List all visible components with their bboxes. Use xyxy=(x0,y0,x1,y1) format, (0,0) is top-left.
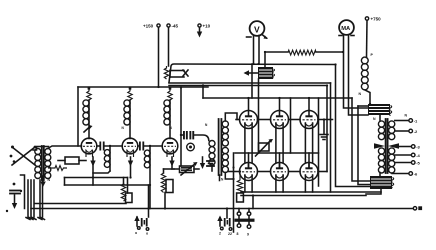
RF choke box lower (hatched) xyxy=(370,176,394,189)
battery group A xyxy=(134,185,149,236)
T2 bottom leads xyxy=(220,173,234,181)
wire e to box stub xyxy=(358,105,368,107)
series resistor R2 zigzag xyxy=(48,166,67,171)
svg-text:9: 9 xyxy=(247,233,249,237)
plate leads top row xyxy=(249,98,310,111)
T3 right winding upper rings xyxy=(389,121,395,140)
antenna series condenser / key contacts lower xyxy=(10,183,22,194)
svg-text:o: o xyxy=(146,232,148,236)
grid condenser box with arrow xyxy=(256,139,274,156)
wire key to transformer T1 xyxy=(33,147,37,150)
voltmeter V xyxy=(247,21,269,39)
phone jack J1 xyxy=(187,143,195,151)
plate rail over tube bank xyxy=(203,97,352,99)
grid return wire down xyxy=(233,153,235,232)
transformer T1 secondary winding (right rings) xyxy=(45,149,51,179)
grid choke L5 xyxy=(144,145,151,209)
plate choke L1 xyxy=(83,87,91,139)
transformer T1 primary winding (left rings) xyxy=(35,149,41,179)
milliammeter MA xyxy=(339,20,354,35)
wire T1 secondary top to tube V1 grid xyxy=(48,146,82,149)
terminal wire 5 xyxy=(395,161,421,166)
grid resistor R3 zigzag vertical xyxy=(237,172,244,203)
filament arrow below V3 xyxy=(169,157,174,169)
wire resistor left xyxy=(265,51,288,53)
tube V1 xyxy=(81,138,97,157)
T2 primary bottom lead xyxy=(211,165,213,171)
filament switch block xyxy=(235,209,255,237)
resistor R6 zigzag with box xyxy=(161,169,174,209)
mid bus between rows xyxy=(235,152,319,154)
T3 left winding lower rings xyxy=(378,148,384,173)
resistor R5 zigzag with box xyxy=(121,178,132,203)
power tube V5 xyxy=(271,111,289,129)
filament legs V6 xyxy=(305,123,312,163)
filament arrow below V2 xyxy=(128,157,133,178)
filament legs V8 xyxy=(276,175,283,192)
terminal dot bottom left xyxy=(6,210,8,212)
right side vertical wire e xyxy=(336,65,371,187)
tube V2 xyxy=(122,138,138,157)
wire V-meter branch down xyxy=(251,64,253,98)
svg-text:V: V xyxy=(254,24,260,34)
T3 top lead to choke box xyxy=(379,115,381,121)
svg-text:+150: +150 xyxy=(143,24,154,29)
coupling capacitor C3 (double) xyxy=(180,131,209,141)
terminal +10 with ground arrow xyxy=(197,24,211,38)
right side vertical wire a xyxy=(330,83,332,192)
bypass wire right of V4 xyxy=(258,79,260,153)
filament rail lower 1 xyxy=(241,191,381,193)
terminal +150 xyxy=(143,24,160,88)
key switch S1 (crossed blades with contact dots) xyxy=(10,146,37,166)
svg-text:8: 8 xyxy=(237,232,239,236)
terminal wire 2 xyxy=(395,129,418,134)
plate feed V7 xyxy=(248,153,250,167)
grid bus top row xyxy=(236,119,333,121)
terminal +750 xyxy=(365,17,381,58)
wire left branch down xyxy=(21,175,25,209)
grid leak zigzag at oscillator xyxy=(164,66,168,79)
filament bus B xyxy=(35,203,126,205)
RF choke box upper (hatched) xyxy=(368,104,392,116)
svg-text:+750: +750 xyxy=(371,17,382,22)
right side vertical wire b xyxy=(326,86,328,172)
bypass wire right of V6 xyxy=(318,98,320,186)
filament drop to main rail xyxy=(252,196,254,209)
svg-text:2: 2 xyxy=(219,232,221,236)
filament legs V9 xyxy=(305,175,312,192)
ground arrow right of rheostat xyxy=(200,157,205,169)
ground arrow below T1 xyxy=(40,176,46,187)
cap top feed xyxy=(264,52,266,67)
coupling capacitor C1 xyxy=(97,142,122,151)
filament legs V5 xyxy=(276,123,283,163)
terminal wire 1 xyxy=(395,119,418,124)
T3 bottom lead to lower box xyxy=(379,173,381,177)
transformer T1 core xyxy=(37,146,49,180)
coupling capacitor C2 xyxy=(138,142,162,151)
svg-text:+10: +10 xyxy=(203,24,211,29)
transformer T2 secondary upper rings xyxy=(222,121,228,146)
T3 left winding upper rings xyxy=(378,121,384,140)
grid choke L4 xyxy=(93,145,111,173)
filament bus A2 xyxy=(65,184,149,186)
T2 secondary top lead to grid bus xyxy=(225,113,237,121)
plate feed V8 xyxy=(279,153,281,167)
ground symbol right of bank xyxy=(320,120,328,140)
svg-text:o: o xyxy=(135,231,137,235)
arrow marker at V1 plate xyxy=(84,125,93,132)
filament legs V4 xyxy=(245,123,252,163)
filament arrow below V1 xyxy=(90,157,95,185)
right side vertical wire c xyxy=(352,98,370,181)
envelope top rail xyxy=(169,64,336,83)
power tube V8 xyxy=(271,163,289,181)
output transformer T3 core xyxy=(386,119,388,173)
oscillator fork electrode xyxy=(170,70,188,77)
transformer T2 primary winding (left rings) xyxy=(209,141,215,166)
battery group B xyxy=(217,209,232,237)
plate choke L3 xyxy=(164,87,172,139)
resistor R4 zigzag xyxy=(288,50,316,55)
grid feed wire left xyxy=(77,87,79,146)
power tube V9 xyxy=(300,163,318,181)
svg-text:-45: -45 xyxy=(172,24,179,29)
terminal wire 4 xyxy=(395,153,421,158)
double rail upper xyxy=(169,82,331,84)
wire resistor right to tank coil xyxy=(316,51,343,53)
power tube V4 xyxy=(240,111,258,129)
plate supply rail top (y87) xyxy=(78,86,208,88)
tank capacitor (hatched) with arrow xyxy=(244,67,275,79)
junction dot xyxy=(232,166,234,168)
voltmeter leads xyxy=(254,36,260,65)
T1 lead wires down with feet xyxy=(26,180,45,220)
ground arrow below key xyxy=(12,195,17,209)
B+ feed wire right of V3 xyxy=(180,87,182,166)
T3 centre tap bowtie xyxy=(374,143,411,149)
milliammeter leads xyxy=(344,35,369,115)
tube V3 xyxy=(162,138,178,157)
tank coil L6 xyxy=(361,57,370,104)
transformer T2 secondary lower rings xyxy=(222,147,228,172)
plate choke L2 xyxy=(124,87,132,139)
lower box bottom lead xyxy=(366,189,381,194)
grid resistor R1 (box) xyxy=(58,157,86,164)
filament bus A xyxy=(65,177,128,179)
power tube V6 xyxy=(300,111,318,129)
svg-text:MA: MA xyxy=(341,26,351,32)
right side vertical wire d xyxy=(358,106,370,185)
bypass wire right of V5 xyxy=(290,98,292,153)
power tube V7 xyxy=(240,163,258,181)
filament legs V7 xyxy=(245,175,252,192)
plate feed V9 xyxy=(308,153,310,167)
grid bus bottom row xyxy=(228,171,327,173)
filament rail lower 2 xyxy=(241,195,366,197)
svg-text:2: 2 xyxy=(230,232,232,236)
T3 right winding lower rings xyxy=(389,148,395,173)
rheostat (hatched box with arrow) xyxy=(174,162,199,175)
terminal -45 xyxy=(167,24,179,67)
svg-text:2: 2 xyxy=(228,232,230,236)
plate rail corner xyxy=(202,85,204,98)
terminal 3 circle xyxy=(411,145,420,150)
bottom rail terminal circle xyxy=(413,206,422,210)
transformer T2 core xyxy=(219,119,222,175)
double rail lower xyxy=(169,85,327,87)
terminal wire 6 xyxy=(392,172,418,177)
main bottom rail xyxy=(31,208,413,210)
bias comb marks xyxy=(207,161,214,166)
